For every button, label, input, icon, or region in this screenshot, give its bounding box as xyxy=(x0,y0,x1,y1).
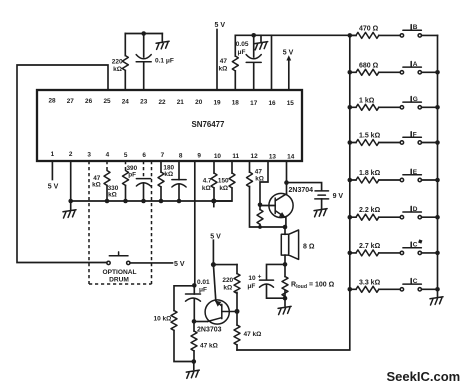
svg-text:kΩ: kΩ xyxy=(113,66,122,73)
capacitor 390pF at pin 6 xyxy=(143,161,145,178)
node base 2N3704 xyxy=(258,203,263,208)
IC bottom pin numbers 1..14 xyxy=(51,151,295,161)
node dot pin23 top xyxy=(141,31,146,36)
svg-text:23: 23 xyxy=(140,99,148,106)
svg-text:+: + xyxy=(258,273,262,280)
svg-text:25: 25 xyxy=(103,98,111,105)
ladder row A 680 ohm + switch A xyxy=(348,61,440,75)
node 0.01uF top xyxy=(192,283,197,288)
svg-text:8: 8 xyxy=(179,152,183,159)
ladder row C# 2.7k + switch C# xyxy=(348,239,440,256)
wire pin 14 down xyxy=(286,161,288,183)
svg-text:4.7: 4.7 xyxy=(203,177,212,184)
resistor 47k at pin 12 xyxy=(250,161,286,227)
resistor 10k xyxy=(171,311,177,331)
ladder row G 1k + switch G xyxy=(348,96,440,110)
svg-text:D: D xyxy=(413,206,418,213)
resistor 220k zigzag xyxy=(122,56,128,71)
svg-text:5 V: 5 V xyxy=(48,184,59,191)
ladder left bus xyxy=(237,35,350,350)
svg-text:E: E xyxy=(413,169,418,176)
svg-text:kΩ: kΩ xyxy=(108,192,117,199)
svg-text:17: 17 xyxy=(250,100,258,107)
wire pin 9 long drop xyxy=(194,161,196,285)
node dot pin2/bus xyxy=(68,199,73,204)
stub below 4.7k node xyxy=(213,201,215,207)
svg-text:27: 27 xyxy=(67,98,75,105)
svg-text:3.3 kΩ: 3.3 kΩ xyxy=(359,279,381,286)
node 5V/220k/emitter xyxy=(211,262,216,267)
svg-text:220: 220 xyxy=(112,58,123,65)
svg-text:470 Ω: 470 Ω xyxy=(359,25,379,32)
resistor 4.7k at pin 10 xyxy=(213,161,215,201)
ground at 0.1uF junction xyxy=(161,34,163,42)
svg-text:10: 10 xyxy=(214,153,222,160)
svg-text:9: 9 xyxy=(197,153,201,160)
svg-text:0.01: 0.01 xyxy=(197,279,210,286)
svg-text:SN76477: SN76477 xyxy=(192,120,226,129)
dashed wire pin 3 (drum box left edge) xyxy=(88,161,90,284)
svg-text:μF: μF xyxy=(238,49,246,56)
IC top pin numbers 28..15 xyxy=(48,98,294,108)
svg-text:18: 18 xyxy=(232,100,240,107)
svg-text:μF: μF xyxy=(247,283,255,290)
capacitor 0.05uF at pin 17 xyxy=(253,35,255,57)
svg-text:11: 11 xyxy=(232,153,239,160)
ladder row D 2.2k + switch D xyxy=(348,206,440,220)
svg-text:pF: pF xyxy=(128,171,136,178)
svg-text:19: 19 xyxy=(213,99,221,106)
svg-text:1.8 kΩ: 1.8 kΩ xyxy=(359,170,381,177)
switch optional drum xyxy=(107,252,185,268)
svg-text:15: 15 xyxy=(287,100,295,107)
svg-text:28: 28 xyxy=(48,98,56,105)
svg-text:2N3703: 2N3703 xyxy=(197,327,222,334)
svg-text:47 kΩ: 47 kΩ xyxy=(244,331,262,338)
node base 2N3703 xyxy=(192,319,197,324)
wire to 10k xyxy=(174,286,194,311)
svg-text:24: 24 xyxy=(122,98,130,105)
svg-text:DRUM: DRUM xyxy=(109,276,129,283)
svg-text:26: 26 xyxy=(85,98,93,105)
svg-text:47: 47 xyxy=(220,58,228,65)
wire pin 16 riser xyxy=(271,35,273,90)
ground below Rloud xyxy=(284,298,286,306)
svg-text:8 Ω: 8 Ω xyxy=(303,244,315,251)
base resistor of 2N3704 xyxy=(259,205,261,210)
ground below battery xyxy=(314,209,327,217)
svg-text:0.05: 0.05 xyxy=(236,41,249,48)
svg-text:kΩ: kΩ xyxy=(223,284,232,291)
ladder row F 1.5k + switch F xyxy=(348,131,440,145)
svg-text:kΩ: kΩ xyxy=(218,66,227,73)
svg-text:4: 4 xyxy=(106,152,110,159)
svg-text:12: 12 xyxy=(251,153,259,160)
svg-text:2.2 kΩ: 2.2 kΩ xyxy=(359,207,381,214)
svg-text:1.5 kΩ: 1.5 kΩ xyxy=(359,133,381,140)
ladder row C 3.3k + switch C xyxy=(348,278,440,292)
wire pin 13 jog to base xyxy=(260,161,268,205)
resistor 220k at pin 24 top wires xyxy=(124,34,126,91)
node Rloud bottom xyxy=(283,296,288,301)
resistor 150k at pin 11 xyxy=(214,161,232,201)
resistor 180k at pin 7 xyxy=(160,161,162,201)
ground right of 0.05uF junction xyxy=(260,35,262,41)
node dot 0.05uF junction xyxy=(251,33,256,38)
base wire 2N3703 xyxy=(194,321,208,323)
svg-text:B: B xyxy=(413,24,418,31)
svg-text:C: C xyxy=(413,278,418,285)
dashed drum box right edge xyxy=(151,161,153,284)
svg-text:C: C xyxy=(413,242,418,249)
svg-text:0.1 μF: 0.1 μF xyxy=(155,57,174,64)
svg-text:9 V: 9 V xyxy=(333,193,344,200)
svg-text:13: 13 xyxy=(269,153,277,160)
capacitor 0.1uF at pin 23 xyxy=(143,34,145,58)
battery 9V xyxy=(315,190,329,192)
svg-text:16: 16 xyxy=(268,100,276,107)
svg-text:680 Ω: 680 Ω xyxy=(359,62,379,69)
ground bottom-left xyxy=(193,362,195,370)
node emitter/speaker xyxy=(283,225,288,230)
speaker 8 ohm xyxy=(281,227,315,264)
svg-text:1 kΩ: 1 kΩ xyxy=(359,97,375,104)
svg-text:μF: μF xyxy=(199,287,207,294)
svg-text:5 V: 5 V xyxy=(283,49,294,56)
svg-text:220: 220 xyxy=(222,277,233,284)
svg-text:7: 7 xyxy=(161,152,165,159)
resistor 47k at pin 4 xyxy=(106,161,108,171)
svg-text:Rloud = 100 Ω: Rloud = 100 Ω xyxy=(291,282,335,290)
ladder row B 470 ohm + switch B xyxy=(348,24,438,38)
svg-text:G: G xyxy=(413,96,418,103)
svg-text:10 kΩ: 10 kΩ xyxy=(154,315,172,322)
svg-text:2: 2 xyxy=(69,151,73,158)
svg-text:22: 22 xyxy=(158,99,166,106)
svg-text:6: 6 xyxy=(142,152,146,159)
wire top of 220k/0.1uF xyxy=(125,33,162,35)
svg-text:150: 150 xyxy=(218,177,229,184)
resistor 47k at pin 18 xyxy=(234,35,236,90)
svg-text:1: 1 xyxy=(51,151,55,158)
wire pin 1 to 5V xyxy=(51,161,53,180)
svg-text:kΩ: kΩ xyxy=(164,171,173,178)
capacitor at pin 8 xyxy=(178,161,180,180)
svg-text:F: F xyxy=(413,131,417,138)
wire pin 2 down xyxy=(70,161,72,201)
svg-text:21: 21 xyxy=(177,99,185,106)
svg-text:kΩ: kΩ xyxy=(92,181,101,188)
ladder right bus xyxy=(437,35,439,296)
svg-text:47 kΩ: 47 kΩ xyxy=(200,342,218,349)
svg-text:5 V: 5 V xyxy=(215,22,226,29)
svg-text:47: 47 xyxy=(255,168,263,175)
node collector 2N3703 xyxy=(235,309,240,314)
top supply wire to ladder xyxy=(235,34,356,36)
svg-text:kΩ: kΩ xyxy=(202,185,211,192)
svg-text:SeekIC.com: SeekIC.com xyxy=(387,369,460,384)
IC U1 SN76477 body xyxy=(37,90,302,161)
node pin14/collector xyxy=(284,180,289,185)
svg-text:OPTIONAL: OPTIONAL xyxy=(102,269,136,276)
resistor 47k base-ground xyxy=(193,321,195,331)
svg-text:5: 5 xyxy=(124,152,128,159)
resistor 47k below 2N3703 collector xyxy=(236,311,238,325)
svg-text:10: 10 xyxy=(248,275,256,282)
transistor Q1 2N3704 xyxy=(260,183,313,227)
resistor 220k collector load xyxy=(236,265,238,274)
svg-text:A: A xyxy=(413,61,418,68)
capacitor 0.01uF xyxy=(193,285,195,294)
capacitor 10uF branch xyxy=(267,264,286,279)
svg-text:20: 20 xyxy=(195,99,203,106)
ground bus wire below IC xyxy=(71,200,232,202)
svg-text:5 V: 5 V xyxy=(210,234,221,241)
node speaker bottom xyxy=(283,262,288,267)
dashed drum box bottom edge xyxy=(89,283,152,285)
node ground bottom-left xyxy=(192,359,197,364)
emitter wire down to 2N3703 xyxy=(213,265,215,301)
transistor Q2 2N3703 xyxy=(197,300,237,334)
svg-text:3: 3 xyxy=(87,151,91,158)
ground at right bus bottom xyxy=(430,297,443,305)
svg-text:5 V: 5 V xyxy=(174,261,185,268)
resistor Rloud 100 ohm xyxy=(284,264,286,276)
svg-text:kΩ: kΩ xyxy=(219,185,228,192)
resistor 330k at pin 5 xyxy=(125,161,127,171)
ladder row E 1.8k + switch E xyxy=(348,169,440,183)
svg-text:14: 14 xyxy=(287,154,295,161)
wire node to 220k xyxy=(213,264,237,266)
wire collector node to battery xyxy=(287,183,322,191)
ground below pin 2 xyxy=(70,201,72,209)
svg-text:2N3704: 2N3704 xyxy=(289,187,314,194)
wire pin25 loop to optional drum (left big loop) xyxy=(17,65,108,263)
svg-text:2.7 kΩ: 2.7 kΩ xyxy=(359,243,381,250)
